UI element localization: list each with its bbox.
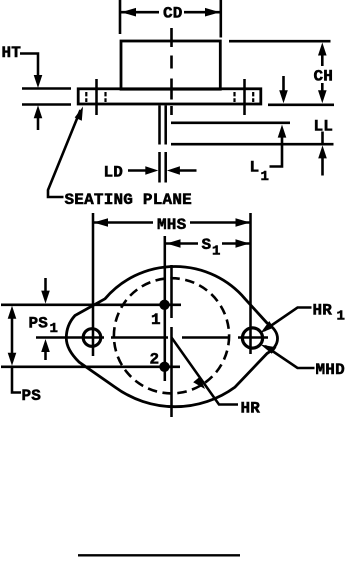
S1 dimension line left segment xyxy=(166,242,198,245)
HT extension line upper xyxy=(22,87,71,90)
svg-text:HR: HR xyxy=(313,302,333,320)
PS dimension line xyxy=(11,317,14,355)
PS dimension arrow bottom (down) xyxy=(8,353,17,366)
pin 1 dot xyxy=(159,300,169,310)
L1 upper arrow (down to seating plane) xyxy=(279,90,288,103)
lead right edge xyxy=(164,106,167,145)
svg-text:1: 1 xyxy=(50,321,58,337)
mounting hole right xyxy=(242,328,262,348)
center line (vertical, dashed) xyxy=(170,28,173,115)
svg-text:HR: HR xyxy=(241,400,261,418)
horizontal center line xyxy=(36,336,268,339)
svg-text:1: 1 xyxy=(337,309,345,325)
LD leader line left xyxy=(128,169,147,172)
S1 arrow right xyxy=(236,239,250,248)
seating plane leader line xyxy=(48,110,81,197)
S1 arrow left xyxy=(167,239,181,248)
HT arrow lower tail xyxy=(37,117,40,130)
vertical center line xyxy=(170,265,173,417)
MHS extension line left xyxy=(92,213,95,356)
svg-text:CH: CH xyxy=(314,68,334,86)
dimension CD arrow left xyxy=(121,8,136,17)
svg-text:L: L xyxy=(250,159,260,177)
L1 gauge line xyxy=(171,122,290,125)
pin 2 dot xyxy=(159,362,169,372)
CH dimension line upper xyxy=(321,54,324,66)
MHS arrow left xyxy=(94,218,109,227)
HR1 leader xyxy=(264,308,312,331)
MHS arrow right xyxy=(236,218,251,227)
body outline xyxy=(66,266,277,406)
LL stub line xyxy=(321,132,324,144)
mounting hole left xyxy=(83,329,101,347)
HT arrow lower (up) xyxy=(34,105,43,118)
svg-text:1: 1 xyxy=(212,244,220,260)
svg-text:PS: PS xyxy=(22,387,42,405)
svg-text:1: 1 xyxy=(261,169,269,185)
LD extension line left xyxy=(158,152,161,183)
PS leader to label xyxy=(12,367,21,393)
MHD leader xyxy=(265,346,315,368)
svg-text:2: 2 xyxy=(150,351,160,369)
cap top extension line right xyxy=(229,40,331,43)
svg-text:MHD: MHD xyxy=(316,361,345,379)
flange outline xyxy=(78,89,261,104)
PS1 lower arrow (up) xyxy=(41,339,50,352)
MHS dimension line left segment xyxy=(93,221,153,224)
LD arrow right (points left) xyxy=(167,166,180,175)
pin 1 line xyxy=(1,304,181,307)
svg-text:MHS: MHS xyxy=(157,216,187,234)
svg-text:1: 1 xyxy=(151,311,161,329)
HR1 arrow xyxy=(261,321,274,333)
lead left edge xyxy=(158,106,161,145)
dimension CD extension line left xyxy=(119,0,122,34)
cap circle (hidden, dashed) xyxy=(114,278,229,393)
LD extension line right xyxy=(164,152,167,183)
CH dimension arrow top (up) xyxy=(318,43,327,56)
MHS extension line right xyxy=(249,213,252,354)
seating plane extension line right xyxy=(268,104,334,107)
mounting hole center line right (side view) xyxy=(243,79,246,115)
HR leader line from center xyxy=(172,338,239,405)
LD leader line right xyxy=(178,169,197,172)
svg-text:PS: PS xyxy=(29,315,49,333)
MHS dimension line right segment xyxy=(190,221,250,224)
svg-text:SEATING PLANE: SEATING PLANE xyxy=(65,191,192,209)
MHD arrow xyxy=(261,345,277,354)
seating plane leader arrow xyxy=(75,107,83,121)
lead end extension line xyxy=(171,143,334,146)
mounting hole hidden line right-left xyxy=(233,92,235,102)
HR arrow on leader xyxy=(193,377,205,389)
L1 lower arrow tail + leader xyxy=(270,137,283,167)
L1 upper arrow tail xyxy=(282,76,285,91)
HT extension line lower xyxy=(22,103,71,106)
dimension CD extension line right xyxy=(220,0,223,38)
CH dimension arrow bottom (down) xyxy=(318,90,327,103)
PS1 lower arrow tail xyxy=(44,351,47,361)
svg-text:S: S xyxy=(202,236,212,254)
mounting hole hidden line left-right xyxy=(104,92,106,102)
mounting hole hidden line left-left xyxy=(85,92,87,102)
cap outline xyxy=(121,41,220,89)
pin line / S1 extension line xyxy=(164,236,167,381)
PS dimension arrow top (up) xyxy=(8,306,17,319)
HT leader xyxy=(20,54,38,78)
svg-text:HT: HT xyxy=(2,44,22,62)
LL arrow (up, below lead end line) xyxy=(318,145,327,158)
svg-text:LD: LD xyxy=(104,164,124,182)
CH dimension line lower xyxy=(321,83,324,92)
footer rule xyxy=(78,554,240,556)
dimension CD line right segment xyxy=(184,11,220,14)
HT arrow upper (down) xyxy=(34,75,43,88)
svg-text:CD: CD xyxy=(163,5,183,23)
mounting hole center line left (side view) xyxy=(95,79,98,115)
dimension CD arrow right xyxy=(205,8,220,17)
S1 dimension line right segment xyxy=(222,242,250,245)
L1 lower arrow (up to gauge line) xyxy=(278,125,287,138)
PS1 upper arrow (down) xyxy=(41,291,50,304)
pin 2 line xyxy=(1,366,180,369)
LD arrow left (points right) xyxy=(145,166,158,175)
PS1 upper arrow tail xyxy=(44,278,47,292)
dimension CD line left segment xyxy=(121,11,159,14)
LL arrow tail xyxy=(321,158,324,176)
mounting hole hidden line right-right xyxy=(252,92,254,102)
